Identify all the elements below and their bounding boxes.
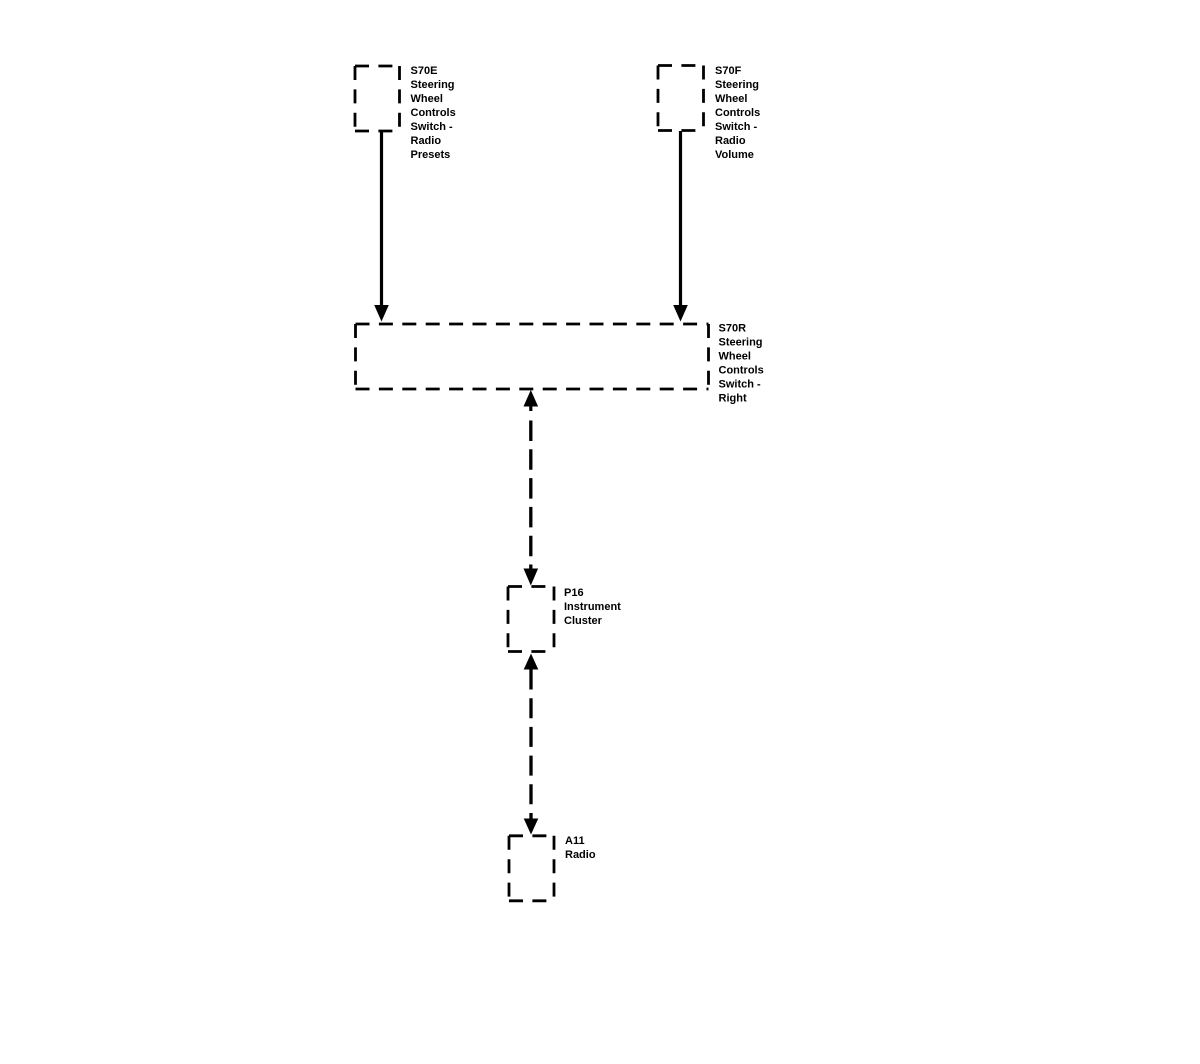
- connector box S70F: [658, 66, 704, 131]
- svg-text:Switch -: Switch -: [719, 379, 762, 391]
- svg-text:Presets: Presets: [411, 149, 451, 161]
- arrowhead into S70R top right: [673, 305, 688, 322]
- svg-text:Steering: Steering: [719, 337, 763, 349]
- svg-text:Controls: Controls: [411, 107, 456, 119]
- label S70F Steering Wheel Controls Switch - Radio Volume: [715, 65, 760, 161]
- svg-text:Switch -: Switch -: [715, 121, 758, 133]
- svg-text:Controls: Controls: [719, 365, 764, 377]
- svg-text:Radio: Radio: [715, 135, 746, 147]
- label A11 Radio: [565, 835, 596, 861]
- svg-text:Cluster: Cluster: [564, 615, 603, 627]
- wire S70R to P16 (dashed): [529, 421, 532, 582]
- svg-text:Radio: Radio: [411, 135, 442, 147]
- label P16 Instrument Cluster: [564, 587, 621, 627]
- svg-text:P16: P16: [564, 587, 584, 599]
- svg-text:Steering: Steering: [411, 79, 455, 91]
- svg-text:Instrument: Instrument: [564, 601, 621, 613]
- arrowhead up into S70R bottom: [524, 390, 539, 411]
- label S70E Steering Wheel Controls Switch - Radio Presets: [411, 65, 456, 161]
- connector box S70R: [356, 324, 709, 389]
- arrowhead down into P16 top: [524, 569, 539, 586]
- svg-text:Right: Right: [719, 393, 747, 405]
- svg-text:A11: A11: [565, 835, 585, 847]
- svg-text:Controls: Controls: [715, 107, 760, 119]
- svg-text:Wheel: Wheel: [411, 93, 443, 105]
- svg-text:S70F: S70F: [715, 65, 742, 77]
- connector box A11: [509, 836, 554, 901]
- svg-text:Wheel: Wheel: [719, 351, 751, 363]
- wire S70F to S70R: [679, 131, 682, 307]
- connector box S70E: [355, 66, 400, 131]
- svg-text:Volume: Volume: [715, 149, 754, 161]
- svg-text:Switch -: Switch -: [411, 121, 454, 133]
- arrowhead into S70R top left: [374, 305, 389, 322]
- arrowhead down into A11 top: [524, 819, 539, 835]
- connector box P16: [508, 587, 554, 652]
- wire S70E to S70R: [380, 131, 383, 307]
- svg-text:S70E: S70E: [411, 65, 438, 77]
- arrowhead up into P16 bottom: [524, 654, 539, 670]
- svg-text:Steering: Steering: [715, 79, 759, 91]
- wire P16 to A11 (dashed): [529, 670, 532, 832]
- svg-text:S70R: S70R: [719, 323, 747, 335]
- svg-text:Radio: Radio: [565, 849, 596, 861]
- label S70R Steering Wheel Controls Switch - Right: [719, 323, 764, 405]
- svg-text:Wheel: Wheel: [715, 93, 747, 105]
